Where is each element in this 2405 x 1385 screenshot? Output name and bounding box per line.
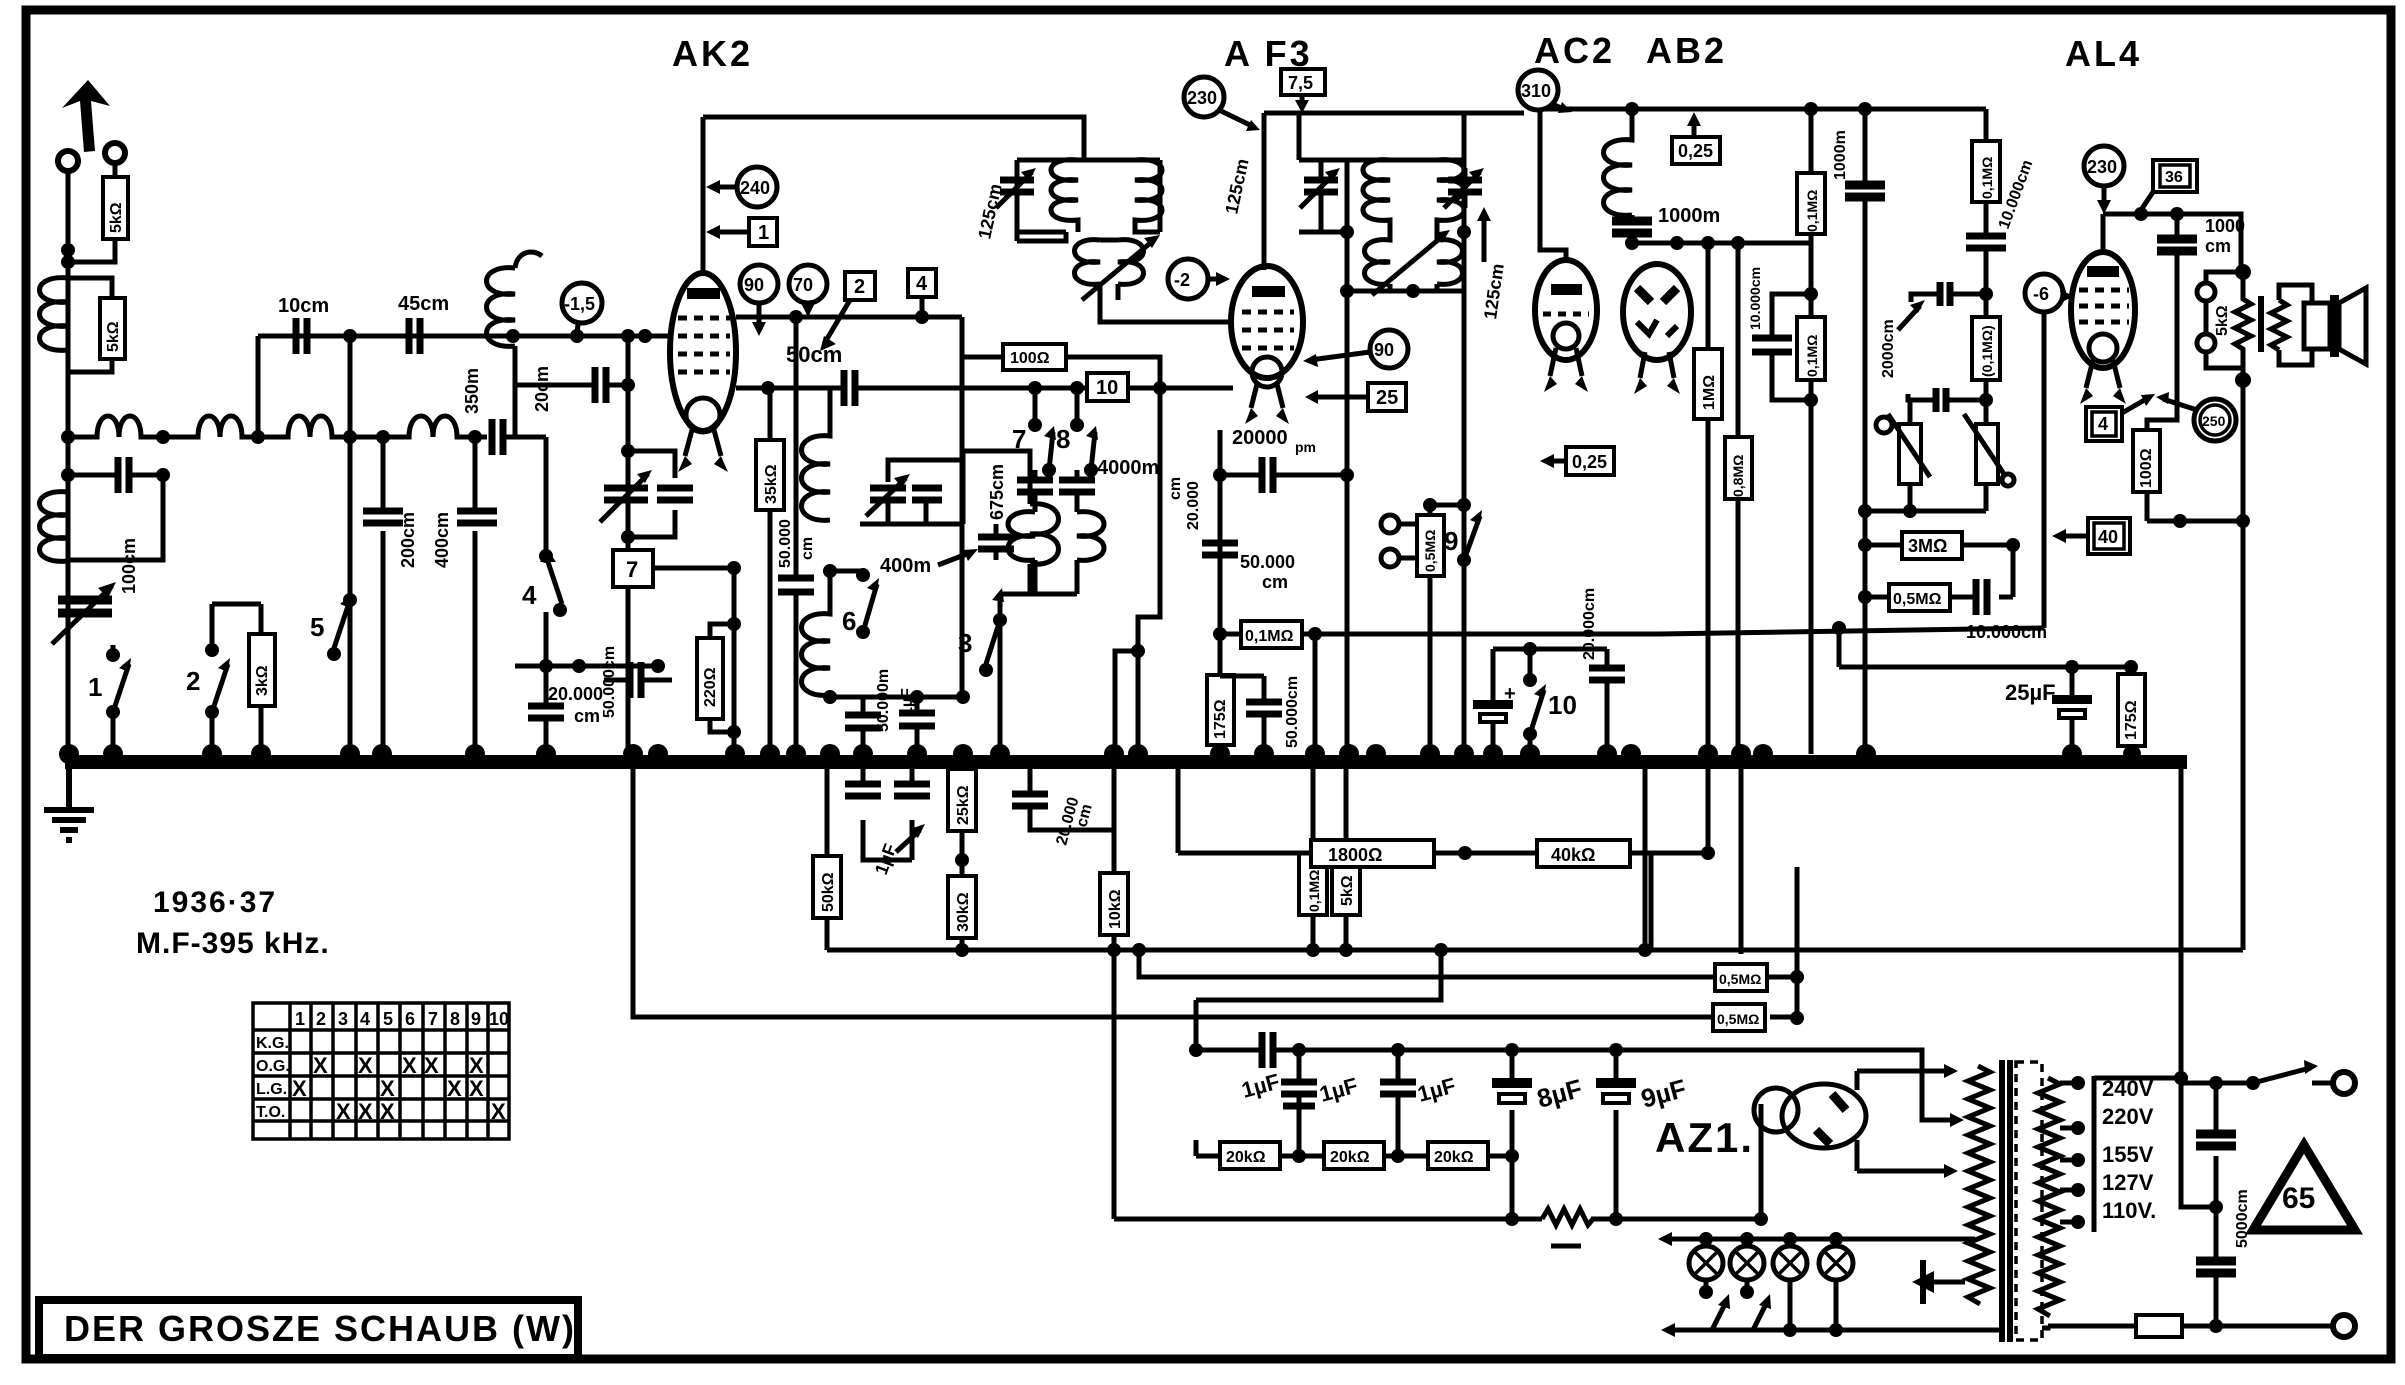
svg-text:50.000: 50.000 — [777, 519, 794, 568]
grid1 wire with 50cm cap — [736, 386, 1087, 391]
svg-text:50.000cm: 50.000cm — [1284, 676, 1301, 748]
svg-text:5kΩ: 5kΩ — [2214, 305, 2231, 336]
svg-text:M.F-395 kHz.: M.F-395 kHz. — [136, 927, 330, 960]
electrolytic 9uF — [1614, 1050, 1619, 1156]
wire 0.8M column below bus — [1739, 762, 1744, 954]
svg-text:X: X — [380, 1099, 395, 1124]
svg-text:cm: cm — [1262, 572, 1288, 592]
svg-text:40kΩ: 40kΩ — [1551, 845, 1595, 865]
wire 1800/40k — [1178, 762, 1651, 950]
svg-text:1MΩ: 1MΩ — [1701, 375, 1718, 410]
switch 2 — [212, 604, 228, 754]
bottom line with hum resistor — [1114, 950, 1761, 1219]
resistor 30k — [948, 831, 976, 950]
svg-text:8: 8 — [450, 1009, 460, 1029]
svg-text:127V: 127V — [2102, 1170, 2154, 1195]
resistor 35k — [756, 388, 784, 754]
ground bus — [65, 755, 2187, 769]
capacitor 200cm/400cm — [381, 437, 386, 754]
resistor 0.8M — [1725, 243, 1752, 754]
capacitor 1uF shunt 2 — [1396, 1050, 1401, 1156]
svg-text:1000m: 1000m — [1658, 205, 1720, 227]
grid2 wire — [736, 315, 962, 320]
svg-text:7: 7 — [1012, 424, 1026, 454]
svg-text:-1,5: -1,5 — [564, 294, 595, 314]
svg-text:X: X — [292, 1076, 307, 1101]
svg-text:20kΩ: 20kΩ — [1434, 1149, 1474, 1166]
tube AF3 — [1231, 266, 1303, 424]
resistor 0.1M no2 — [1797, 317, 1825, 380]
variable capacitor (tuning gang 1) — [58, 600, 112, 613]
AZ1 filament wire — [1759, 1104, 1764, 1219]
svg-text:110V.: 110V. — [2102, 1198, 2156, 1223]
resistor 10k — [1100, 762, 1128, 950]
resistor 0.1M (horizontal) — [1220, 604, 1315, 634]
circle -1.5 — [562, 283, 602, 323]
resistor (antenna series) — [68, 163, 128, 262]
svg-text:10cm: 10cm — [278, 295, 329, 317]
primary zigzag — [2235, 272, 2251, 380]
svg-text:X: X — [336, 1099, 351, 1124]
svg-text:4: 4 — [916, 273, 928, 295]
svg-text:X: X — [469, 1076, 484, 1101]
resistor 20k no2 — [1324, 1142, 1384, 1169]
circle -6 — [2025, 274, 2063, 312]
svg-text:50kΩ: 50kΩ — [820, 872, 837, 912]
svg-text:675cm: 675cm — [987, 464, 1007, 520]
top wire (grid line to AK2) — [258, 334, 672, 339]
svg-text:220V: 220V — [2102, 1104, 2154, 1129]
capacitor 5000cm upper — [2214, 1083, 2219, 1261]
box 4 — [908, 269, 936, 297]
wire (left down from 10cm cap) — [256, 336, 261, 437]
svg-text:-6: -6 — [2033, 284, 2049, 304]
filter line D — [1196, 1050, 1956, 1120]
svg-text:7: 7 — [428, 1009, 438, 1029]
triangle 65 — [2253, 1145, 2355, 1230]
svg-text:70: 70 — [793, 275, 813, 295]
svg-text:20kΩ: 20kΩ — [1226, 1149, 1266, 1166]
resistor 0.5M no2 — [1713, 1004, 1765, 1031]
switch 5 — [334, 336, 350, 754]
svg-text:25: 25 — [1376, 387, 1398, 409]
svg-text:200cm: 200cm — [398, 512, 418, 568]
svg-text:100Ω: 100Ω — [1010, 350, 1050, 367]
svg-text:2: 2 — [316, 1009, 326, 1029]
svg-text:3: 3 — [958, 628, 972, 658]
svg-text:0,1MΩ: 0,1MΩ — [1245, 628, 1294, 645]
oscillator coil (lower) — [802, 571, 831, 695]
resistor 0.5M (phono) — [1417, 505, 1444, 754]
20k chain — [1196, 1154, 1512, 1159]
capacitor 675cm — [1017, 480, 1053, 492]
wire 100 ohm bottom — [2147, 519, 2243, 524]
svg-text:0,5MΩ: 0,5MΩ — [1422, 530, 1438, 572]
svg-text:6: 6 — [842, 606, 856, 636]
svg-text:X: X — [469, 1053, 484, 1078]
svg-text:4: 4 — [522, 580, 537, 610]
HT rail — [1545, 107, 1986, 112]
output transformer + field coil — [2235, 264, 2251, 280]
svg-text:AL4: AL4 — [2065, 33, 2142, 74]
capacitor 5000cm lower — [2196, 1261, 2236, 1273]
svg-text:310: 310 — [1521, 81, 1551, 101]
svg-text:220Ω: 220Ω — [702, 667, 719, 707]
svg-text:0,25: 0,25 — [1678, 141, 1713, 161]
svg-text:0,5MΩ: 0,5MΩ — [1717, 1011, 1759, 1027]
resistor 0.5M no1 — [1715, 964, 1767, 991]
wire — [732, 568, 737, 754]
node — [61, 243, 75, 257]
svg-text:35kΩ: 35kΩ — [763, 464, 780, 504]
capacitor 1uF shunt 1 — [1297, 1050, 1302, 1156]
svg-text:10: 10 — [489, 1009, 509, 1029]
bottom mains wire + fuse — [2048, 1324, 2334, 1329]
capacitor 50cm — [844, 370, 855, 406]
svg-text:20.000: 20.000 — [1185, 481, 1202, 530]
svg-text:0,5MΩ: 0,5MΩ — [1719, 971, 1761, 987]
svg-text:0,1MΩ: 0,1MΩ — [1306, 870, 1322, 912]
resistor 40k — [1537, 840, 1630, 867]
svg-text:25µF: 25µF — [2005, 680, 2056, 705]
svg-text:-2: -2 — [1174, 270, 1190, 290]
svg-text:20kΩ: 20kΩ — [1330, 1149, 1370, 1166]
tube AB2 (duo diode) — [1623, 264, 1691, 394]
wire — [1493, 647, 1607, 652]
svg-text:5kΩ: 5kΩ — [105, 321, 122, 352]
resistor 3M — [1865, 543, 2013, 548]
svg-text:10kΩ: 10kΩ — [1107, 889, 1124, 929]
tube AC2 — [1535, 260, 1597, 392]
wire AF3 cathode down — [1220, 241, 1464, 754]
arrow 125cm — [1482, 215, 1487, 262]
svg-text:9: 9 — [1444, 526, 1458, 556]
svg-text:2000cm: 2000cm — [1880, 319, 1897, 378]
resistor 1M — [1694, 243, 1722, 754]
svg-text:X: X — [402, 1053, 417, 1078]
circle 310 — [1518, 70, 1558, 110]
svg-text:0,1MΩ: 0,1MΩ — [1979, 157, 1995, 199]
coupling coils IF2 — [1365, 232, 1463, 291]
svg-text:100cm: 100cm — [119, 538, 139, 594]
wire — [515, 664, 658, 669]
svg-text:7: 7 — [626, 557, 638, 582]
bus junction blobs — [59, 744, 2141, 764]
resistor 20k no1 — [1220, 1142, 1280, 1169]
wire 1865 down — [1863, 550, 1868, 754]
svg-text:AC2: AC2 — [1534, 30, 1615, 71]
wire down from output — [2241, 380, 2246, 950]
box 7.5 — [1281, 69, 1325, 95]
transformer core — [2002, 1060, 2010, 1342]
node — [61, 430, 75, 444]
svg-text:X: X — [491, 1099, 506, 1124]
resistor 0.1M no4 — [1972, 317, 2000, 380]
wire y243 — [1632, 241, 1811, 246]
capacitor 1uF series — [1262, 1032, 1273, 1068]
IF transformer 2 — [1299, 113, 1508, 321]
wire (anode top lead) — [701, 117, 706, 273]
svg-text:pm: pm — [1295, 439, 1316, 455]
svg-text:90: 90 — [744, 275, 764, 295]
resistor 50k — [813, 762, 841, 950]
capacitor 20cm (osc) — [595, 367, 606, 403]
svg-text:(0,1MΩ): (0,1MΩ) — [1979, 325, 1995, 377]
svg-text:0,8MΩ: 0,8MΩ — [1730, 455, 1746, 497]
wire 1645 below bus — [1643, 762, 1648, 950]
resistor 3k — [249, 604, 275, 754]
IF2 coil A — [1363, 160, 1390, 232]
mains area — [2094, 1076, 2181, 1081]
svg-text:X: X — [424, 1053, 439, 1078]
svg-text:cm: cm — [574, 706, 600, 726]
svg-text:T.O.: T.O. — [256, 1104, 285, 1121]
capacitor 400m — [978, 537, 1014, 549]
svg-text:350m: 350m — [462, 368, 482, 414]
box 4 (al4) — [2086, 407, 2122, 441]
capacitor 50.000cm (cathode) — [1246, 702, 1282, 714]
svg-text:4: 4 — [2098, 414, 2108, 434]
svg-text:230: 230 — [1187, 88, 1217, 108]
svg-text:8: 8 — [1056, 424, 1070, 454]
switch 3 — [986, 594, 1000, 754]
svg-text:1800Ω: 1800Ω — [1328, 845, 1382, 865]
svg-text:L.G.: L.G. — [256, 1081, 287, 1098]
svg-text:100Ω: 100Ω — [2138, 448, 2155, 488]
oscillator tank: trimmer caps — [870, 488, 906, 500]
capacitor 350m — [492, 419, 503, 455]
switch 1 — [106, 648, 120, 662]
switch 4 — [546, 437, 562, 666]
svg-text:1000: 1000 — [2205, 216, 2245, 236]
svg-text:20.000: 20.000 — [548, 684, 603, 704]
wire rail end down — [1984, 109, 1989, 141]
svg-text:5: 5 — [310, 612, 324, 642]
circle 90 (af3) — [1370, 330, 1408, 368]
svg-text:X: X — [358, 1053, 373, 1078]
svg-text:K.G.: K.G. — [256, 1035, 289, 1052]
svg-text:5000cm: 5000cm — [2234, 1189, 2251, 1248]
resistor 0.1M (avc) — [1299, 762, 1327, 950]
trimmer cap IF1 — [1000, 180, 1034, 192]
svg-text:20.000cm: 20.000cm — [1581, 588, 1598, 660]
capacitor 50000 (screen) — [794, 317, 799, 754]
svg-text:30kΩ: 30kΩ — [955, 892, 972, 932]
capacitor 20.000cm (agc) — [1030, 762, 1114, 830]
box 7 — [613, 550, 653, 587]
box 0.25 — [1672, 137, 1720, 164]
svg-text:36: 36 — [2165, 169, 2183, 186]
wire A — [827, 948, 2243, 953]
capacitor (coupling) — [118, 457, 129, 493]
capacitor — [1202, 543, 1238, 555]
resistor 220 — [697, 624, 734, 732]
box 40 — [2088, 518, 2130, 554]
resistor 1800 — [1311, 840, 1434, 867]
wire — [66, 171, 71, 754]
svg-text:90: 90 — [1374, 340, 1394, 360]
tank coil — [1000, 504, 1059, 594]
bottom wire pots — [1865, 509, 1986, 514]
svg-text:5: 5 — [383, 1009, 393, 1029]
tube AK2 — [670, 273, 736, 472]
svg-text:1000m: 1000m — [1832, 130, 1849, 180]
speaker — [2304, 303, 2330, 349]
svg-text:AB2: AB2 — [1646, 30, 1727, 71]
ground symbol — [44, 769, 94, 840]
svg-text:1µF: 1µF — [899, 688, 916, 716]
wire E (rectangle from bus) — [633, 762, 1797, 1017]
resistor 175 — [1207, 634, 1234, 754]
svg-text:O.G.: O.G. — [256, 1058, 290, 1075]
svg-text:cm: cm — [2205, 236, 2231, 256]
wire 310 to AC2 anode — [1540, 110, 1566, 262]
svg-text:25kΩ: 25kΩ — [955, 785, 972, 825]
svg-text:AK2: AK2 — [672, 33, 753, 74]
resistor 100 (al4) — [2133, 430, 2160, 492]
circle 230 (al4) — [2084, 146, 2124, 186]
capacitor 10.000cm (al4 coupling) — [1966, 236, 2006, 248]
svg-text:50.000m: 50.000m — [875, 669, 892, 732]
RF choke — [1604, 109, 1633, 215]
svg-text:0,5MΩ: 0,5MΩ — [1893, 591, 1942, 608]
electrolytic 8uF — [1510, 1050, 1515, 1156]
circle -2 — [1168, 259, 1208, 299]
IF1 coil A — [1051, 160, 1078, 232]
padding coils — [1008, 512, 1035, 594]
resistor 0.1M no1 — [1797, 109, 1825, 294]
wire staircase (osc to bus) — [1115, 388, 1160, 754]
svg-text:40: 40 — [2098, 527, 2118, 547]
electrolytic + switch 10 — [1491, 649, 1496, 754]
circle 250 — [2194, 399, 2236, 441]
svg-text:1: 1 — [295, 1009, 305, 1029]
svg-text:1936·37: 1936·37 — [153, 886, 277, 919]
circle 230 — [1184, 77, 1224, 117]
wire C — [1196, 950, 1441, 1050]
resistor 20k no3 — [1428, 1142, 1488, 1169]
wire (grid2 dropper) — [960, 357, 965, 697]
svg-text:240: 240 — [740, 178, 770, 198]
coupling coils — [1075, 240, 1144, 300]
resistor 5k — [1332, 762, 1360, 950]
svg-text:cm: cm — [799, 537, 816, 560]
svg-text:AZ1.: AZ1. — [1655, 1114, 1754, 1161]
chassis arrow — [1920, 1260, 1926, 1304]
circle 70 — [789, 265, 827, 303]
switch 8 — [1070, 418, 1084, 432]
secondary taps — [2060, 1083, 2072, 1222]
capacitors 1uF pair — [863, 762, 912, 860]
svg-text:1: 1 — [758, 222, 769, 244]
antenna terminal 2 — [105, 143, 125, 163]
svg-text:2: 2 — [186, 666, 200, 696]
svg-text:10: 10 — [1096, 377, 1118, 399]
svg-text:20000: 20000 — [1232, 427, 1288, 449]
svg-text:6: 6 — [405, 1009, 415, 1029]
bias wire — [1315, 628, 2044, 634]
oscillator coil top — [487, 252, 543, 346]
wire transformer bottom — [1975, 1326, 2048, 1330]
title box — [39, 1300, 578, 1358]
wire to resistor 100 — [962, 317, 1003, 357]
top wire to IF1 — [703, 117, 1084, 160]
svg-text:45cm: 45cm — [398, 293, 449, 315]
svg-text:4: 4 — [360, 1009, 370, 1029]
coil (antenna primary) — [40, 278, 69, 351]
box 25 — [1368, 383, 1406, 411]
IF1 coil B — [1135, 160, 1162, 232]
capacitor 1000cm — [1612, 221, 1652, 233]
svg-text:3: 3 — [338, 1009, 348, 1029]
phono terminals — [1381, 515, 1399, 533]
svg-text:3kΩ: 3kΩ — [254, 665, 271, 696]
wire -6 to y667 — [1839, 628, 2131, 667]
switch 9 — [1457, 498, 1471, 512]
svg-text:0,25: 0,25 — [1572, 452, 1607, 472]
wire B — [1139, 950, 1797, 977]
wire — [1313, 634, 1318, 754]
antenna — [62, 80, 110, 152]
resistor 175 (al4) — [2118, 667, 2145, 754]
svg-text:50.000: 50.000 — [1240, 552, 1295, 572]
capacitor 45cm — [409, 318, 420, 354]
tube AL4 — [2071, 252, 2135, 404]
resistor 25k — [948, 762, 976, 831]
circle 240 — [737, 167, 777, 207]
transformer primary winding — [1968, 1066, 1990, 1304]
secondary zigzag + speaker — [2271, 300, 2287, 350]
capacitor 1000cm (al4 anode) — [2157, 239, 2197, 251]
capacitor 10000cm loop — [1804, 287, 1818, 301]
variable capacitor (tuning gang 2) — [628, 451, 675, 537]
resistor 0.5M + capacitor 10.000cm — [1865, 545, 2013, 597]
IF2 top rail — [1100, 113, 1524, 322]
svg-text:10.000cm: 10.000cm — [1966, 622, 2047, 642]
svg-text:175Ω: 175Ω — [2123, 700, 2140, 740]
IF transformer 1 — [974, 117, 1252, 300]
trimmer cap IF2 right — [1448, 180, 1482, 192]
svg-text:cm: cm — [1167, 477, 1184, 500]
anode wire AL4 — [2103, 214, 2241, 272]
box 0.25 arrow — [1566, 447, 1614, 475]
dial lamps — [1658, 1232, 1975, 1337]
box 10 — [1087, 373, 1128, 401]
svg-text:400m: 400m — [880, 555, 931, 577]
trimmer cap IF2 left — [1304, 180, 1338, 192]
wire (2nd gang column) — [626, 336, 631, 754]
switch 6 — [856, 568, 870, 582]
coil (bottom left) — [40, 492, 69, 562]
potentiometer 1 — [1876, 417, 1892, 433]
box 36 — [2153, 160, 2197, 192]
tone caps 2000cm — [1979, 287, 1993, 301]
wave-band switch table — [253, 1003, 509, 1139]
transformer secondary winding — [2038, 1078, 2060, 1316]
svg-text:X: X — [358, 1099, 373, 1124]
coil chain (band filter) — [68, 416, 487, 437]
box 2 — [845, 272, 875, 300]
IF2 coil B — [1437, 160, 1464, 232]
oscillator coil (upper) — [802, 389, 831, 520]
box 1 — [749, 218, 777, 246]
capacitor 1uF — [899, 713, 935, 726]
svg-text:10.000cm: 10.000cm — [1747, 267, 1763, 330]
svg-text:175Ω: 175Ω — [1212, 699, 1229, 739]
antenna terminal 1 — [58, 151, 78, 171]
capacitor 20.000cm — [528, 706, 564, 718]
svg-text:X: X — [447, 1076, 462, 1101]
